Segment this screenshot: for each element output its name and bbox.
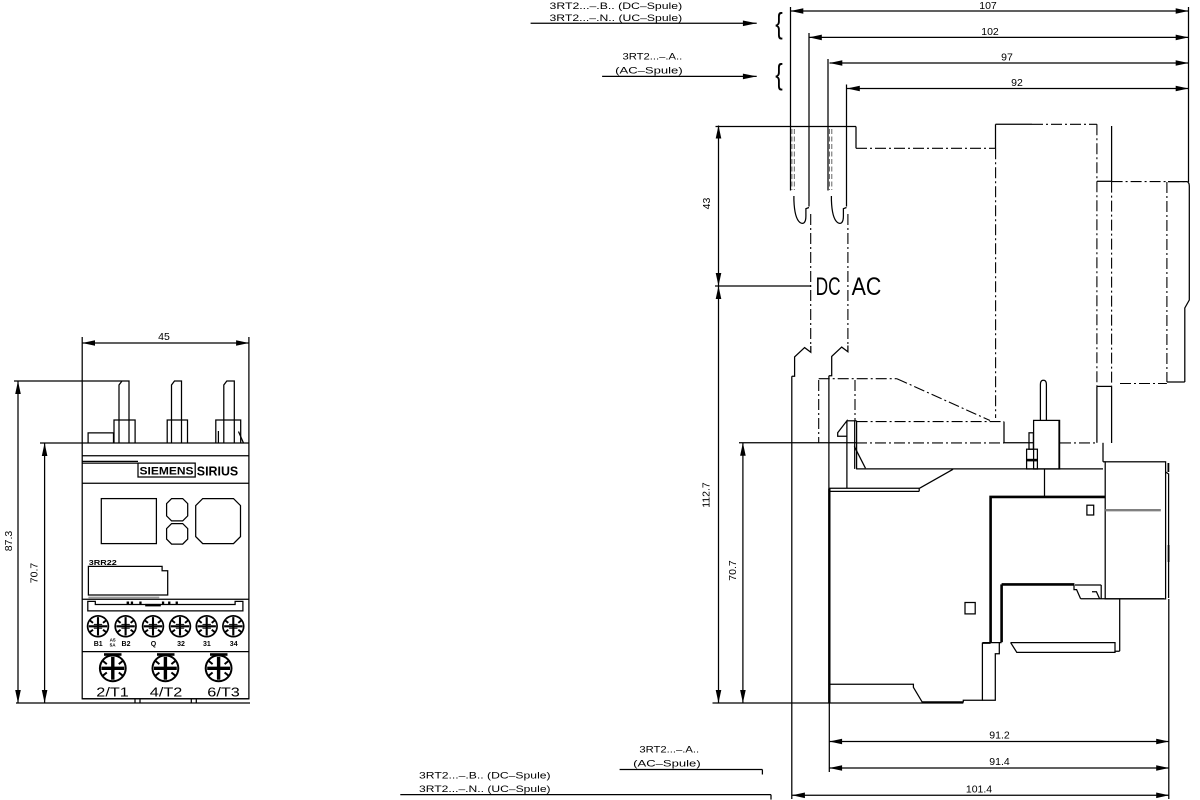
svg-text:43: 43 [701, 198, 713, 210]
svg-text:3RR22: 3RR22 [89, 560, 117, 567]
svg-text:87.3: 87.3 [3, 531, 15, 552]
svg-text:AC: AC [852, 273, 882, 301]
svg-text:3RT2...–.B.. (DC–Spule): 3RT2...–.B.. (DC–Spule) [419, 771, 551, 781]
svg-text:34: 34 [230, 641, 238, 648]
svg-text:3RT2...–.A..: 3RT2...–.A.. [639, 745, 699, 755]
svg-text:B1: B1 [94, 641, 103, 648]
svg-text:(AC–Spule): (AC–Spule) [633, 759, 701, 769]
svg-text:32: 32 [177, 641, 185, 648]
svg-text:70.7: 70.7 [28, 563, 40, 584]
svg-text:92: 92 [1011, 77, 1023, 89]
svg-text:SIRIUS: SIRIUS [197, 465, 238, 479]
svg-text:91.4: 91.4 [989, 756, 1010, 768]
svg-text:112.7: 112.7 [701, 482, 713, 508]
svg-text:4/T2: 4/T2 [150, 686, 183, 700]
svg-text:SIEMENS: SIEMENS [140, 466, 194, 478]
svg-text:31: 31 [203, 641, 211, 648]
svg-text:DC: DC [816, 273, 841, 301]
svg-text:102: 102 [981, 26, 999, 38]
svg-text:3RT2...–.B.. (DC–Spule): 3RT2...–.B.. (DC–Spule) [550, 1, 683, 11]
svg-text:45: 45 [158, 331, 170, 343]
svg-text:101.4: 101.4 [966, 784, 992, 796]
svg-text:{: { [775, 57, 783, 91]
svg-text:5A: 5A [110, 642, 117, 647]
svg-text:B2: B2 [122, 641, 131, 648]
svg-text:107: 107 [979, 0, 997, 12]
svg-text:2/T1: 2/T1 [96, 686, 129, 700]
svg-text:3RT2...–.N.. (UC–Spule): 3RT2...–.N.. (UC–Spule) [550, 13, 683, 23]
svg-text:70.7: 70.7 [727, 560, 739, 581]
svg-text:Q: Q [151, 641, 157, 648]
svg-text:91.2: 91.2 [989, 730, 1010, 742]
svg-text:3RT2...–.A..: 3RT2...–.A.. [623, 52, 683, 62]
svg-text:{: { [775, 6, 783, 40]
svg-text:3RT2...–.N.. (UC–Spule): 3RT2...–.N.. (UC–Spule) [419, 784, 551, 794]
svg-text:6/T3: 6/T3 [207, 686, 240, 700]
svg-text:97: 97 [1001, 52, 1013, 64]
svg-text:(AC–Spule): (AC–Spule) [615, 65, 683, 75]
